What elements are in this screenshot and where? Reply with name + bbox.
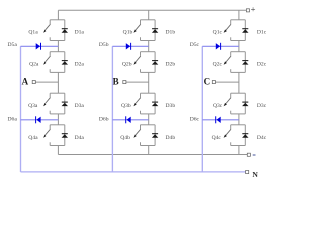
svg-text:Q1b: Q1b bbox=[123, 30, 133, 36]
svg-text:D1c: D1c bbox=[257, 30, 267, 36]
svg-text:Q1c: Q1c bbox=[213, 30, 223, 36]
svg-text:D3b: D3b bbox=[166, 103, 176, 109]
svg-text:D1b: D1b bbox=[166, 30, 176, 36]
svg-text:D5b: D5b bbox=[99, 42, 109, 48]
svg-text:D4c: D4c bbox=[257, 135, 267, 141]
svg-text:D2a: D2a bbox=[75, 61, 85, 67]
svg-text:D5a: D5a bbox=[8, 42, 18, 48]
svg-text:D3a: D3a bbox=[75, 103, 85, 109]
svg-text:Q4a: Q4a bbox=[28, 135, 38, 141]
svg-text:+: + bbox=[251, 4, 256, 14]
svg-text:Q4b: Q4b bbox=[120, 135, 130, 141]
svg-text:D2c: D2c bbox=[257, 61, 267, 67]
svg-text:Q3a: Q3a bbox=[28, 103, 38, 109]
svg-text:Q4c: Q4c bbox=[212, 135, 222, 141]
svg-text:N: N bbox=[252, 170, 258, 179]
svg-text:D6a: D6a bbox=[8, 117, 18, 123]
svg-text:Q3c: Q3c bbox=[213, 103, 223, 109]
svg-text:Q2c: Q2c bbox=[213, 61, 223, 67]
svg-text:D1a: D1a bbox=[75, 30, 85, 36]
svg-text:D4a: D4a bbox=[75, 135, 85, 141]
svg-text:D2b: D2b bbox=[166, 61, 176, 67]
svg-text:D6c: D6c bbox=[190, 117, 200, 123]
svg-text:Q1a: Q1a bbox=[28, 30, 38, 36]
svg-text:C: C bbox=[204, 76, 211, 86]
svg-text:Q2a: Q2a bbox=[29, 61, 39, 67]
svg-text:D5c: D5c bbox=[190, 42, 200, 48]
svg-text:D4b: D4b bbox=[166, 135, 176, 141]
svg-text:Q2b: Q2b bbox=[122, 61, 132, 67]
svg-text:A: A bbox=[22, 76, 29, 86]
svg-text:D6b: D6b bbox=[99, 117, 109, 123]
svg-text:Q3b: Q3b bbox=[121, 103, 131, 109]
svg-text:B: B bbox=[113, 76, 119, 86]
svg-text:D3c: D3c bbox=[257, 103, 267, 109]
